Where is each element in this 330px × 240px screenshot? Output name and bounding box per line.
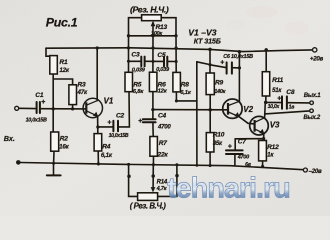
svg-text:R3: R3 bbox=[78, 82, 87, 89]
svg-text:Вых.1: Вых.1 bbox=[304, 93, 321, 99]
svg-text:R12: R12 bbox=[267, 144, 279, 151]
svg-text:R9: R9 bbox=[215, 79, 224, 86]
svg-text:(Рез. Н.Ч.): (Рез. Н.Ч.) bbox=[130, 4, 169, 14]
svg-text:R11: R11 bbox=[272, 77, 284, 84]
svg-text:С2: С2 bbox=[116, 113, 125, 120]
svg-text:4700: 4700 bbox=[237, 155, 250, 161]
svg-text:( Рез. В.Ч.): ( Рез. В.Ч.) bbox=[130, 202, 167, 211]
svg-text:R4: R4 bbox=[102, 144, 111, 151]
svg-text:16к: 16к bbox=[59, 143, 69, 150]
svg-text:Рис.1: Рис.1 bbox=[46, 15, 78, 29]
svg-text:12к: 12к bbox=[158, 89, 168, 95]
svg-text:R1: R1 bbox=[59, 59, 68, 66]
svg-text:47к: 47к bbox=[77, 89, 88, 96]
svg-text:35к: 35к bbox=[213, 141, 223, 147]
svg-text:6,1к: 6,1к bbox=[180, 90, 192, 96]
svg-text:R5: R5 bbox=[133, 82, 142, 89]
svg-text:R8: R8 bbox=[181, 82, 190, 89]
svg-text:+: + bbox=[228, 144, 232, 151]
svg-text:С1: С1 bbox=[35, 92, 44, 99]
svg-text:+: + bbox=[107, 119, 111, 126]
svg-text:+: + bbox=[277, 95, 281, 102]
svg-text:100к: 100к bbox=[151, 31, 163, 37]
svg-text:1к: 1к bbox=[267, 152, 274, 159]
svg-text:0,039: 0,039 bbox=[132, 67, 146, 73]
svg-text:4700: 4700 bbox=[157, 124, 171, 130]
svg-text:22к: 22к bbox=[157, 151, 169, 158]
svg-text:10,0х15В: 10,0х15В bbox=[109, 133, 129, 139]
svg-text:10,0х15В: 10,0х15В bbox=[26, 118, 47, 124]
svg-text:R6: R6 bbox=[158, 81, 167, 88]
svg-text:+: + bbox=[138, 118, 142, 125]
svg-text:6,1к: 6,1к bbox=[101, 152, 113, 159]
svg-text:0,039: 0,039 bbox=[156, 67, 170, 73]
svg-text:V3: V3 bbox=[270, 120, 280, 129]
svg-text:С8: С8 bbox=[286, 89, 295, 96]
svg-text:V2: V2 bbox=[243, 105, 253, 114]
svg-text:R13: R13 bbox=[156, 24, 168, 31]
svg-text:С3: С3 bbox=[131, 52, 140, 59]
svg-text:6,8к: 6,8к bbox=[133, 89, 145, 95]
svg-text:51к: 51к bbox=[272, 88, 282, 94]
svg-text:+20в: +20в bbox=[310, 55, 324, 62]
svg-text:10,0х: 10,0х bbox=[268, 104, 281, 110]
svg-text:С6 10,0х15В: С6 10,0х15В bbox=[223, 54, 253, 60]
svg-text:КТ 315Б: КТ 315Б bbox=[194, 36, 221, 45]
svg-text:Вых.2: Вых.2 bbox=[303, 115, 320, 121]
svg-text:С5: С5 bbox=[157, 52, 166, 59]
svg-text:140к: 140к bbox=[214, 89, 226, 95]
svg-text:+: + bbox=[41, 99, 45, 106]
svg-text:С7: С7 bbox=[238, 139, 247, 146]
svg-text:R10: R10 bbox=[213, 132, 225, 139]
svg-text:–20в: –20в bbox=[309, 168, 322, 175]
svg-text:12к: 12к bbox=[59, 67, 69, 74]
svg-text:V1: V1 bbox=[104, 97, 114, 106]
svg-text:4,7к: 4,7к bbox=[156, 186, 168, 192]
svg-text:Вх.: Вх. bbox=[4, 134, 15, 143]
svg-text:1в: 1в bbox=[289, 105, 295, 111]
svg-text:+: + bbox=[220, 60, 224, 67]
svg-text:tehnari.ru: tehnari.ru bbox=[167, 173, 290, 205]
svg-text:R7: R7 bbox=[159, 140, 168, 147]
svg-text:С4: С4 bbox=[158, 112, 167, 119]
svg-text:6в: 6в bbox=[245, 162, 251, 168]
svg-text:R2: R2 bbox=[60, 135, 69, 142]
